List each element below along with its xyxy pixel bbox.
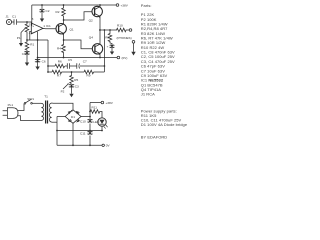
terminal PSU 0V <box>102 144 111 148</box>
node junction feedback column top <box>104 29 106 31</box>
svg-text:Q2: Q2 <box>89 19 93 23</box>
node junction zobel top <box>109 29 111 31</box>
wire rail drop to op-amp <box>31 5 33 22</box>
resistor R11 <box>90 106 102 118</box>
svg-text:R8: R8 <box>105 36 109 40</box>
terminal speaker - <box>132 41 135 44</box>
wire plug to transformer primary bottom <box>18 116 41 121</box>
resistor R8 zobel <box>105 30 112 45</box>
svg-text:C3: C3 <box>75 85 79 89</box>
wire mid line to caps <box>57 130 102 132</box>
wire LED cathode to mid line <box>101 126 103 130</box>
wire branch C <box>48 71 104 73</box>
capacitor C7 polarized <box>77 60 87 69</box>
transformer T1 <box>41 95 53 124</box>
svg-text:PL1: PL1 <box>8 103 14 107</box>
diode bridge D1 <box>65 110 81 124</box>
wire C6 column down <box>37 32 39 58</box>
parts list text <box>141 3 188 139</box>
capacitor C8 zobel <box>107 44 115 49</box>
svg-text:Parts:: Parts: <box>141 3 152 8</box>
svg-text:R7: R7 <box>57 74 61 78</box>
wire op-amp pin2 feedback <box>30 32 32 41</box>
capacitor C11 <box>80 131 93 135</box>
wire jack to C1 <box>12 21 14 23</box>
svg-text:(PHONES): (PHONES) <box>117 36 132 40</box>
node junction P1 bottom <box>26 39 28 41</box>
node junction secondary bottom <box>56 130 58 132</box>
wire secondary bottom tap <box>53 121 58 123</box>
node junction R11 tap <box>89 111 91 113</box>
capacitor C6 <box>35 58 46 65</box>
wire secondary top to bridge <box>53 103 74 110</box>
ground arrow below C8 <box>110 50 114 55</box>
wire Q2 emitter to output node <box>99 18 101 30</box>
wire secondary column down <box>56 117 58 146</box>
trimmer P2 <box>61 72 79 93</box>
ground arrow below C2 <box>40 15 44 22</box>
terminal speaker + <box>129 29 132 32</box>
node junction caps top feed <box>89 116 91 118</box>
svg-text:C10: C10 <box>80 120 86 124</box>
wire top +V rail <box>32 4 116 6</box>
wire branch B <box>48 65 104 67</box>
connector J1 input jack <box>6 15 12 25</box>
wire feedback column from output node <box>103 30 105 72</box>
node junction C2 top <box>41 4 43 6</box>
svg-text:C1: C1 <box>12 15 16 19</box>
svg-text:P2: P2 <box>61 89 65 93</box>
capacitor C5 <box>67 58 72 69</box>
svg-text:C11: C11 <box>80 132 86 136</box>
wire output node y30 <box>99 29 117 31</box>
node junction P2 top <box>71 71 73 73</box>
svg-text:C6: C6 <box>42 59 46 63</box>
svg-text:8: 8 <box>32 17 34 21</box>
svg-text:C2: C2 <box>46 9 50 13</box>
svg-text:R11: R11 <box>92 106 98 110</box>
resistor R2 <box>56 5 66 20</box>
capacitor C1 <box>12 15 17 25</box>
resistor R1 <box>25 40 34 52</box>
svg-text:R2: R2 <box>56 10 60 14</box>
wire bridge right to caps column <box>81 116 90 118</box>
node junction branch B right <box>104 65 106 67</box>
svg-text:C7: C7 <box>83 60 87 64</box>
capacitor C10 <box>80 119 93 123</box>
capacitor C3 <box>69 84 79 89</box>
node junction pin2/C6 column <box>37 39 39 41</box>
svg-text:R6: R6 <box>58 60 62 64</box>
resistor R6 <box>55 60 65 68</box>
svg-text:C4: C4 <box>22 52 26 56</box>
node junction R2 top <box>63 4 65 6</box>
svg-text:Q1: Q1 <box>70 27 74 31</box>
svg-text:SW1: SW1 <box>27 97 34 101</box>
wire C1 to op-amp input <box>17 22 32 26</box>
transistor Q2 <box>89 5 103 23</box>
node junction bridge bottom rail <box>72 144 74 146</box>
wire bridge bottom to rail <box>72 123 74 145</box>
potentiometer P1 <box>17 22 29 40</box>
ground arrow speaker return <box>131 43 135 55</box>
wire to +38V PSU terminal <box>90 102 101 104</box>
svg-text:Q4: Q4 <box>89 35 93 39</box>
svg-text:+: + <box>32 24 34 28</box>
node junction lineA R4 <box>63 57 65 59</box>
power plug PL1 <box>3 103 18 118</box>
svg-text:D1 100V 4A Diode bridge: D1 100V 4A Diode bridge <box>141 122 188 127</box>
node junction Q2 emitter output <box>99 29 101 31</box>
node junction caps bottom rail <box>89 144 91 146</box>
resistor R10 output <box>117 24 130 32</box>
node junction branch C left <box>47 71 49 73</box>
wire +V column <box>89 103 91 146</box>
ground arrow below C3 <box>69 90 73 98</box>
resistor R7 <box>52 70 62 77</box>
resistor R4 <box>57 40 65 58</box>
svg-text:T1: T1 <box>44 95 48 99</box>
svg-text:1 IC1: 1 IC1 <box>43 24 51 28</box>
svg-text:BY EDAFORD: BY EDAFORD <box>141 134 167 139</box>
svg-text:J1: J1 <box>6 15 10 19</box>
wire plug to switch <box>18 104 24 111</box>
terminal +38V <box>116 3 129 7</box>
svg-text:D1: D1 <box>71 115 75 119</box>
svg-text:R1: R1 <box>30 42 34 46</box>
svg-text:-: - <box>32 30 33 34</box>
svg-text:+38V: +38V <box>106 101 114 105</box>
resistor R9 <box>84 70 94 77</box>
node junction input/pot <box>26 21 28 23</box>
ground arrow P1 wiper <box>19 33 23 47</box>
ground arrow below C6 <box>35 64 39 70</box>
transistor Q4 <box>89 30 103 58</box>
svg-text:+: + <box>107 44 109 48</box>
svg-text:P1: P1 <box>17 36 21 40</box>
wire bridge left vertex <box>57 116 65 118</box>
wire op-amp output to Q1 base <box>43 27 56 29</box>
node junction Q1 emitter <box>63 39 65 41</box>
wire feedback column x48 <box>47 40 49 72</box>
transistor Q1 <box>56 20 74 40</box>
capacitor C2 <box>39 5 49 15</box>
svg-text:R9: R9 <box>87 74 91 78</box>
capacitor C4 <box>22 51 30 57</box>
terminal PSU +38V <box>101 101 114 105</box>
wire Q1 emitter to Q4 base <box>64 40 93 49</box>
ground arrow below C4 <box>25 58 29 67</box>
svg-text:R10: R10 <box>117 24 123 28</box>
node junction R2 bottom / Q1 collector <box>63 19 65 21</box>
wire Q1 collector node to Q2 base <box>64 12 93 20</box>
switch SW1 <box>24 97 34 104</box>
op-amp IC1 <box>29 17 51 35</box>
svg-text:R5: R5 <box>74 78 78 82</box>
node junction lineA Q4 emitter <box>99 57 101 59</box>
svg-text:C5: C5 <box>68 58 72 62</box>
svg-text:(0V): (0V) <box>122 56 128 60</box>
svg-text:+38V: +38V <box>121 3 129 7</box>
node junction Q2 collector rail <box>99 4 101 6</box>
wire bottom rail <box>57 144 102 146</box>
svg-text:3: 3 <box>29 23 31 27</box>
node junction mid line caps <box>89 130 91 132</box>
LED indicator <box>93 118 107 129</box>
terminal ground 0V <box>117 56 127 60</box>
svg-text:J1 RCA: J1 RCA <box>141 92 155 97</box>
svg-text:R4: R4 <box>57 47 61 51</box>
svg-text:LED: LED <box>93 120 100 124</box>
wire switch to transformer <box>32 102 40 104</box>
node junction branch B left <box>47 65 49 67</box>
wire feedback horizontal y40 <box>27 39 48 41</box>
node junction lineA C6 <box>37 57 39 59</box>
wire ground rail line A <box>38 57 118 59</box>
node junction LED mid line <box>101 130 103 132</box>
